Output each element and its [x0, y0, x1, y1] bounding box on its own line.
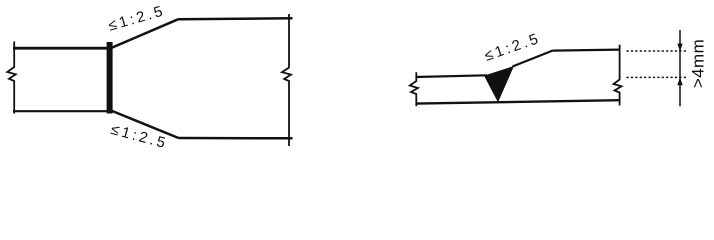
left plate top edge — [13, 47, 111, 50]
svg-text:>4mm: >4mm — [689, 39, 708, 88]
extension line top (dotted) — [627, 50, 687, 52]
top flat edge of thick section — [178, 18, 293, 19]
left plate bottom edge — [13, 110, 112, 112]
bottom taper edge — [111, 111, 179, 139]
thick plate top edge — [553, 50, 621, 51]
thin plate top edge — [416, 75, 488, 77]
weld fill (black triangle) — [484, 66, 514, 102]
plate bottom edge — [416, 100, 621, 103]
extension line bottom (dotted) — [627, 76, 687, 78]
dimension line (vertical) — [679, 30, 681, 106]
right figure: left edge with break symbol — [410, 72, 418, 106]
taper edge (right figure) — [513, 51, 553, 67]
weld seam (thick line) — [107, 42, 113, 114]
bottom flat edge of thick section — [179, 137, 293, 140]
dimension arrow top (pointing down) — [677, 44, 682, 52]
right edge with break symbol (right figure) — [614, 45, 622, 106]
left plate left edge with break symbol — [7, 42, 16, 114]
dimension arrow bottom (pointing up) — [677, 77, 682, 85]
top taper edge — [110, 19, 178, 48]
right edge with break symbol (left figure) — [282, 14, 291, 146]
